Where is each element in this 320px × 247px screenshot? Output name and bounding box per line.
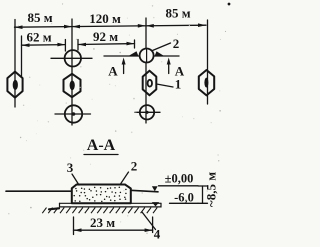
dimension 23 m extension left xyxy=(73,217,75,235)
view arrow A left xyxy=(123,63,125,74)
svg-text:4: 4 xyxy=(154,227,161,242)
borehole lens item 1 column3 xyxy=(143,71,157,96)
svg-text:~8,5 м: ~8,5 м xyxy=(204,172,219,207)
svg-text:23 м: 23 м xyxy=(90,215,115,230)
section cut line A-A xyxy=(104,55,179,57)
extension line column 3 xyxy=(145,18,147,123)
arrows 92m xyxy=(78,42,135,47)
leader to label 1 xyxy=(157,84,174,87)
cut mark triangle right xyxy=(155,51,165,56)
speck top right xyxy=(228,3,231,6)
svg-text:2: 2 xyxy=(173,36,180,51)
dimension line top row xyxy=(15,25,207,27)
level mark triangle lower xyxy=(152,202,160,206)
bedding layer item 4 xyxy=(60,203,162,207)
axis line through W2 xyxy=(51,57,92,59)
dimension line 62 m xyxy=(22,44,66,47)
arrows top dimension row xyxy=(15,23,207,29)
extension line column 1 xyxy=(14,20,16,108)
extension line column 2 xyxy=(71,19,73,125)
svg-text:85 м: 85 м xyxy=(27,10,52,25)
svg-text:62 м: 62 м xyxy=(26,30,51,45)
svg-text:3: 3 xyxy=(67,160,74,175)
svg-text:1: 1 xyxy=(175,77,182,92)
dimension 23 m extension right xyxy=(152,217,154,233)
leader to label 3 xyxy=(72,174,79,185)
borehole lens column5 xyxy=(199,70,214,95)
concrete stipple inside block xyxy=(73,187,126,203)
svg-text:А: А xyxy=(108,64,118,79)
svg-text:92 м: 92 м xyxy=(93,29,118,44)
svg-text:120 м: 120 м xyxy=(89,11,121,26)
svg-text:А-А: А-А xyxy=(87,137,116,154)
ground line right stub xyxy=(131,190,159,192)
borehole lens B1 column1 xyxy=(7,72,22,98)
underline of section title xyxy=(84,154,118,156)
foundation block outline xyxy=(72,185,131,204)
well circle with crosshair column3 lower xyxy=(140,105,154,119)
extension line 92m right xyxy=(134,40,136,48)
svg-text:-6,0: -6,0 xyxy=(174,191,194,205)
leader to label 4 xyxy=(142,212,156,230)
well circle with crosshair column2 lower xyxy=(65,105,82,122)
leader to label 2 section xyxy=(121,172,129,184)
ground line left xyxy=(6,190,71,192)
leader to label 2 xyxy=(153,43,171,51)
well circle item 2 column3 xyxy=(140,49,154,63)
level line +-0,00 xyxy=(159,185,199,187)
dimension line 92 m xyxy=(78,43,135,46)
extension line column 5 xyxy=(207,20,209,104)
dimension line 23 m xyxy=(74,229,153,231)
hatch pen blob left end xyxy=(49,208,59,209)
ground hatching xyxy=(42,208,157,214)
extension line 62m left xyxy=(21,36,23,77)
svg-text:±0,00: ±0,00 xyxy=(165,172,194,186)
extension line 92m left xyxy=(77,40,79,51)
vertical dimension bracket 8,5 m xyxy=(202,186,204,203)
svg-text:2: 2 xyxy=(131,159,138,174)
view arrow A right xyxy=(168,63,170,74)
svg-text:85 м: 85 м xyxy=(165,6,190,21)
borehole lens B2 column2 xyxy=(64,74,81,97)
scan noise speckle xyxy=(8,3,226,234)
extension line 62m right xyxy=(64,40,66,52)
arrows 62m xyxy=(22,43,66,47)
well circle W2 column2 xyxy=(65,50,81,66)
cut mark triangle left xyxy=(128,51,139,56)
level line -6,0 xyxy=(170,202,199,204)
level mark triangle upper xyxy=(152,186,158,191)
